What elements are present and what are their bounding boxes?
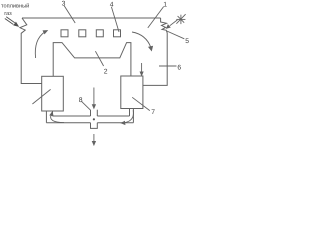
svg-text:6: 6 [177, 64, 181, 71]
pipe top left segment [53, 115, 91, 117]
right circulation curved arrow [132, 32, 153, 51]
svg-text:5: 5 [185, 38, 189, 45]
spark asterisk [176, 14, 185, 24]
pipe bottom left segment [46, 122, 90, 124]
right riser inner wall [129, 109, 131, 117]
left circulation curved arrow [35, 31, 47, 58]
hole square a [61, 30, 68, 37]
spark arrow [167, 20, 178, 28]
svg-text:1: 1 [163, 1, 167, 8]
vessel top wall [22, 17, 161, 19]
svg-text:2: 2 [104, 69, 108, 76]
svg-text:3: 3 [62, 0, 66, 7]
leader line 5 [167, 31, 185, 39]
fuel gas inlet arrow [5, 17, 18, 26]
pipe top right segment [97, 115, 129, 117]
fuel inlet notch (left zigzag) and left wall [20, 18, 42, 84]
right box inlet down arrow [140, 63, 143, 75]
svg-text:8: 8 [79, 97, 83, 104]
leader line 7 [132, 97, 150, 110]
svg-text:газ: газ [4, 11, 12, 17]
hole square c [96, 30, 103, 37]
svg-text:4: 4 [110, 1, 114, 8]
leader line 8 [82, 102, 91, 110]
left riser outer wall [45, 111, 47, 123]
outlet down arrow [92, 134, 95, 145]
leader line 4 [111, 7, 119, 32]
left riser inner wall [52, 111, 54, 116]
igniter slit (right zigzag) and right wall [143, 18, 167, 85]
leader line 2 [95, 51, 103, 66]
leader line 1 [148, 7, 164, 28]
mixer stem lower U [91, 123, 98, 129]
left box leader line [32, 89, 50, 104]
mixer stem upper right wall [96, 110, 98, 116]
right riser outer wall [132, 109, 134, 123]
left pipe flow hook arrow [50, 112, 64, 123]
leader line 6 [159, 65, 177, 67]
pipe bottom right segment [97, 122, 133, 124]
hole square b [79, 30, 86, 37]
mixer inlet down arrow [92, 88, 95, 109]
inner deflector hat 2 [53, 43, 131, 77]
right pipe flow hook arrow [121, 110, 133, 124]
hole square d [114, 30, 121, 37]
left heat exchanger box [42, 76, 64, 111]
svg-text:7: 7 [151, 109, 155, 116]
right heat exchanger box 7 [121, 76, 143, 109]
svg-text:топливный: топливный [1, 3, 29, 10]
leader line 3 [64, 6, 75, 23]
mixer center dot [93, 118, 95, 120]
mixer stem upper left wall [90, 110, 92, 116]
